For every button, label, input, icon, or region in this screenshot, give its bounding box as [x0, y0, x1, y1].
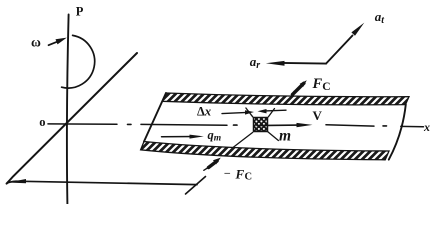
omega arrow shaft [49, 41, 59, 45]
centerline dash 3 [326, 125, 374, 126]
svg-text:C: C [245, 172, 253, 183]
FC force arrow stroke [293, 83, 304, 94]
mass element m (crosshatched) [254, 118, 268, 132]
svg-text:ar: ar [250, 54, 260, 71]
svg-text:m: m [279, 128, 291, 145]
svg-text:o: o [39, 115, 45, 129]
centerline dot 2 [234, 124, 238, 126]
rotation arc omega [62, 35, 95, 88]
svg-text:F: F [235, 167, 245, 182]
qm arrowhead [190, 135, 204, 139]
element leader to m label [268, 132, 279, 141]
dx right dimension arrow shaft [265, 109, 286, 112]
svg-text:–: – [224, 167, 231, 179]
svg-text:at: at [375, 9, 386, 26]
centerline dot 1 [128, 123, 132, 125]
minus FC arrowhead [213, 158, 221, 165]
dx left arrowhead [245, 110, 254, 114]
ar arrow shaft [282, 62, 326, 65]
qm arrow shaft [162, 136, 197, 138]
svg-text:x: x [423, 120, 430, 134]
tube right end edge [389, 104, 406, 159]
dx right arrowhead [258, 109, 267, 113]
V arrow shaft [257, 124, 299, 127]
diagonal axis through origin [7, 53, 137, 184]
bottom axis end tick [186, 177, 206, 195]
centerline dash 4 [401, 125, 424, 127]
ar arrowhead (points left) [266, 61, 285, 66]
svg-text:V: V [313, 108, 323, 123]
element leader down-left [233, 132, 253, 147]
svg-text:ω: ω [31, 34, 41, 49]
minus FC arrow tail [204, 167, 210, 171]
svg-text:C: C [322, 81, 330, 93]
minus FC arrow stroke [209, 161, 218, 168]
V arrowhead [297, 123, 313, 127]
FC arrow tail [292, 92, 294, 96]
tube top wall [162, 93, 409, 105]
centerline dot 3 [383, 125, 387, 127]
tube left end edge [144, 93, 166, 142]
omega arrowhead [56, 38, 67, 45]
tube bottom wall [141, 142, 389, 160]
svg-text:Δx: Δx [197, 105, 211, 119]
svg-text:F: F [312, 76, 323, 92]
centerline dash 2 [141, 123, 227, 126]
bottom axis shaft [7, 181, 197, 184]
svg-text:qm: qm [208, 128, 222, 144]
bottom axis left arrowhead [8, 179, 27, 183]
dx left dimension arrow shaft [222, 112, 247, 113]
at arrowhead [351, 23, 364, 36]
svg-text:P: P [76, 5, 84, 19]
at arrow shaft [326, 36, 353, 64]
centerline dash 1 [48, 123, 117, 125]
axis P (vertical) [67, 15, 69, 205]
element extension line up-left [246, 108, 253, 117]
FC arrowhead [300, 80, 307, 87]
element extension line up-right [268, 109, 274, 117]
